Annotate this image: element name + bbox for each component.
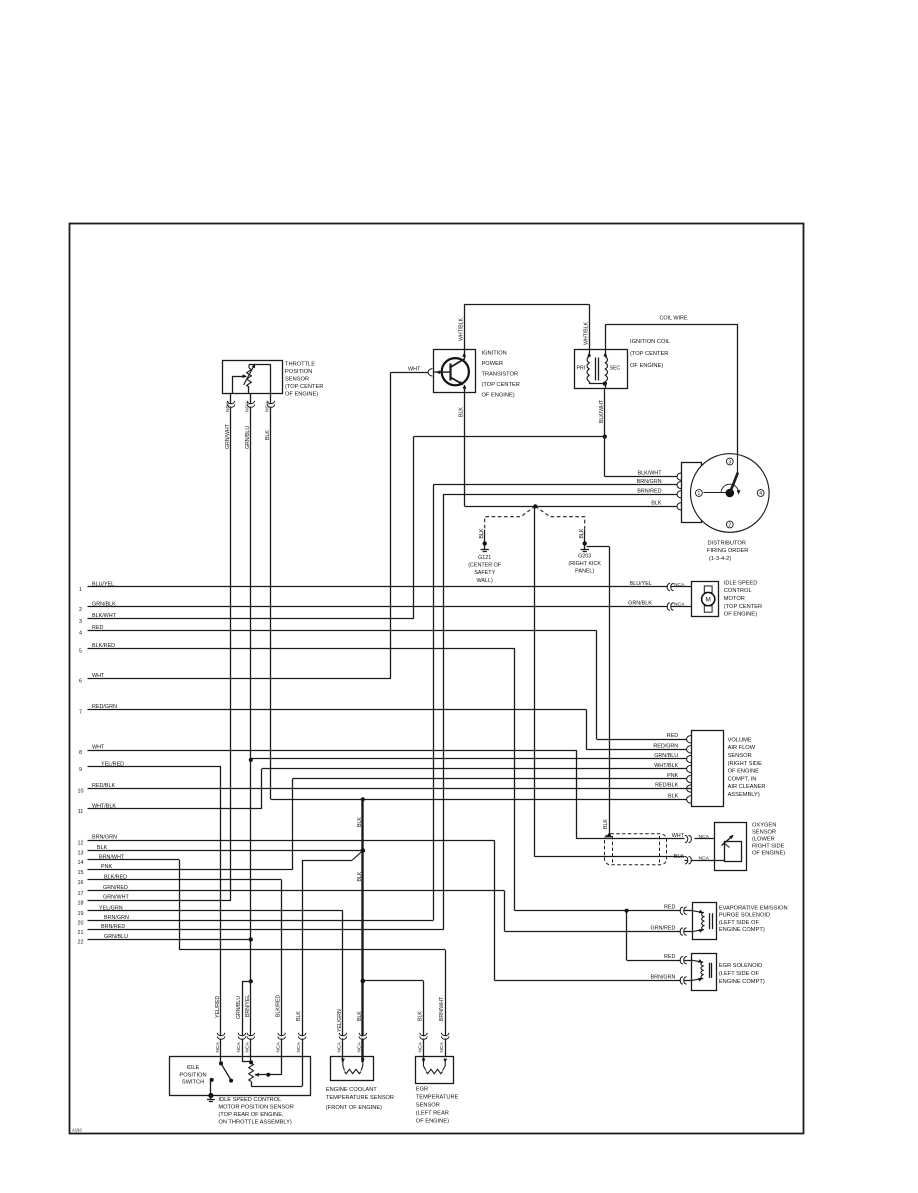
svg-text:NCA: NCA (245, 1041, 251, 1052)
svg-text:4: 4 (759, 491, 762, 497)
svg-text:BRN/WHT: BRN/WHT (439, 996, 445, 1021)
svg-text:WHT/BLK: WHT/BLK (654, 763, 678, 769)
svg-text:PRI: PRI (577, 366, 586, 372)
svg-text:BRN/RED: BRN/RED (637, 488, 661, 494)
svg-text:(TOP CENTER: (TOP CENTER (630, 351, 668, 357)
svg-text:POSITION: POSITION (285, 369, 312, 375)
svg-text:(TOP CENTER: (TOP CENTER (285, 384, 323, 390)
svg-text:NCA: NCA (439, 1041, 445, 1052)
svg-text:VOLUME: VOLUME (728, 737, 752, 743)
svg-text:BLK: BLK (296, 1011, 302, 1021)
svg-text:3: 3 (79, 619, 82, 625)
svg-text:WHT/BLK: WHT/BLK (92, 803, 116, 809)
svg-text:ENGINE COMPT): ENGINE COMPT) (719, 979, 765, 985)
svg-text:NCA: NCA (265, 401, 271, 412)
svg-text:12: 12 (78, 841, 84, 847)
svg-text:14: 14 (78, 860, 84, 866)
svg-text:(1-3-4-2): (1-3-4-2) (709, 556, 731, 562)
svg-text:(RIGHT KICK: (RIGHT KICK (568, 561, 601, 567)
svg-text:IDLE SPEED CONTROL: IDLE SPEED CONTROL (218, 1097, 281, 1103)
svg-text:NCA: NCA (357, 1041, 363, 1052)
svg-text:G203: G203 (578, 554, 591, 560)
svg-text:11: 11 (78, 809, 84, 815)
svg-text:WHT: WHT (92, 744, 105, 750)
svg-text:BLK/WHT: BLK/WHT (638, 471, 663, 477)
svg-text:BLK/WHT: BLK/WHT (92, 613, 117, 619)
svg-text:IDLE SPEED: IDLE SPEED (724, 580, 758, 586)
svg-text:BLK: BLK (603, 819, 609, 829)
svg-text:BRN/YEL: BRN/YEL (245, 995, 251, 1017)
svg-text:(CENTER OF: (CENTER OF (468, 563, 502, 569)
svg-text:(RIGHT SIDE: (RIGHT SIDE (728, 761, 763, 767)
svg-text:WHT/BLK: WHT/BLK (583, 321, 589, 345)
svg-text:1: 1 (698, 491, 701, 497)
svg-text:G121: G121 (478, 555, 491, 561)
svg-text:10: 10 (78, 789, 84, 795)
svg-text:(TOP CENTER: (TOP CENTER (482, 382, 520, 388)
svg-text:BLK: BLK (668, 793, 679, 799)
svg-text:NCA: NCA (275, 1041, 281, 1052)
svg-text:GRN/RED: GRN/RED (103, 885, 128, 891)
svg-text:YEL/GRN: YEL/GRN (337, 1009, 343, 1032)
svg-text:19: 19 (78, 911, 84, 917)
svg-text:SENSOR: SENSOR (752, 830, 776, 836)
svg-text:22: 22 (78, 940, 84, 946)
svg-text:OF ENGINE): OF ENGINE) (724, 612, 757, 618)
svg-text:17: 17 (78, 891, 84, 897)
svg-text:(LEFT REAR: (LEFT REAR (416, 1110, 449, 1116)
svg-text:BLK: BLK (579, 528, 585, 538)
svg-text:NCA: NCA (699, 834, 710, 840)
svg-text:BLK/RED: BLK/RED (104, 874, 127, 880)
svg-text:ON THROTTLE ASSEMBLY): ON THROTTLE ASSEMBLY) (218, 1119, 292, 1125)
svg-text:9: 9 (79, 767, 82, 773)
svg-text:GRN/BLU: GRN/BLU (245, 426, 251, 449)
svg-text:MOTOR: MOTOR (724, 596, 745, 602)
svg-text:NCA: NCA (417, 1041, 423, 1052)
svg-text:WHT: WHT (672, 833, 685, 839)
svg-text:WHT/BLK: WHT/BLK (458, 317, 464, 341)
svg-text:BLK: BLK (479, 528, 485, 538)
svg-text:RED: RED (664, 905, 675, 911)
svg-text:BRN/WHT: BRN/WHT (99, 854, 125, 860)
svg-text:4: 4 (79, 631, 82, 637)
svg-text:PANEL): PANEL) (575, 569, 594, 575)
svg-text:COMPT, IN: COMPT, IN (728, 776, 757, 782)
svg-text:(TOP CENTER: (TOP CENTER (724, 604, 762, 610)
svg-text:SAFETY: SAFETY (474, 570, 495, 576)
svg-text:NCA: NCA (236, 1041, 242, 1052)
svg-text:FIRING ORDER: FIRING ORDER (707, 548, 748, 554)
svg-text:(LOWER: (LOWER (752, 837, 775, 843)
svg-text:SENSOR: SENSOR (285, 377, 309, 383)
svg-text:BLU/YEL: BLU/YEL (630, 581, 652, 587)
svg-text:YEL/RED: YEL/RED (215, 996, 221, 1018)
svg-text:OXYGEN: OXYGEN (752, 823, 776, 829)
svg-text:NCA: NCA (225, 401, 231, 412)
svg-text:6: 6 (79, 679, 82, 685)
svg-text:OF ENGINE): OF ENGINE) (482, 392, 515, 398)
svg-text:(LEFT SIDE OF: (LEFT SIDE OF (719, 920, 760, 926)
svg-text:BLK: BLK (357, 1011, 363, 1021)
svg-text:BRN/GRN: BRN/GRN (637, 479, 662, 485)
svg-text:EGR SOLENOID: EGR SOLENOID (719, 963, 762, 969)
svg-text:BRN/GRN: BRN/GRN (92, 835, 117, 841)
svg-text:2: 2 (728, 523, 731, 529)
svg-text:15: 15 (78, 870, 84, 876)
svg-text:21: 21 (78, 930, 84, 936)
svg-text:BLK: BLK (357, 871, 363, 881)
svg-text:EGR: EGR (416, 1086, 428, 1092)
svg-text:BRN/RED: BRN/RED (101, 924, 125, 930)
svg-text:RED/GRN: RED/GRN (92, 704, 117, 710)
svg-text:BLK/RED: BLK/RED (92, 643, 115, 649)
svg-text:16: 16 (78, 880, 84, 886)
svg-text:OF ENGINE): OF ENGINE) (752, 851, 785, 857)
svg-text:ENGINE COOLANT: ENGINE COOLANT (326, 1087, 377, 1093)
svg-text:BLK: BLK (674, 854, 685, 860)
svg-text:THROTTLE: THROTTLE (285, 362, 315, 368)
svg-text:MOTOR POSITION SENSOR: MOTOR POSITION SENSOR (218, 1105, 293, 1111)
svg-text:BLK: BLK (651, 500, 662, 506)
svg-text:GRN/BLU: GRN/BLU (104, 934, 128, 940)
svg-text:YEL/RED: YEL/RED (101, 761, 124, 767)
svg-text:3: 3 (728, 460, 731, 466)
svg-text:RED: RED (664, 954, 675, 960)
svg-text:SENSOR: SENSOR (416, 1102, 440, 1108)
svg-text:AIR CLEANER: AIR CLEANER (728, 784, 766, 790)
svg-text:NCA: NCA (215, 1041, 221, 1052)
svg-text:COIL WIRE: COIL WIRE (660, 316, 688, 322)
svg-text:BLU/YEL: BLU/YEL (92, 581, 114, 587)
svg-text:IGNITION COIL: IGNITION COIL (630, 339, 670, 345)
svg-text:GRN/BLU: GRN/BLU (236, 996, 242, 1019)
svg-text:IGNITION: IGNITION (482, 350, 507, 356)
svg-text:PURGE SOLENOID: PURGE SOLENOID (719, 913, 770, 919)
svg-text:OF ENGINE: OF ENGINE (728, 769, 759, 775)
svg-text:NCA: NCA (674, 602, 685, 608)
svg-text:BLK: BLK (265, 430, 271, 440)
svg-text:TRANSISTOR: TRANSISTOR (482, 371, 519, 377)
svg-text:BLK: BLK (418, 1011, 424, 1021)
svg-text:ENGINE COMPT): ENGINE COMPT) (719, 927, 765, 933)
svg-text:RIGHT SIDE: RIGHT SIDE (752, 844, 785, 850)
svg-text:TEMPERATURE: TEMPERATURE (416, 1094, 459, 1100)
svg-text:13: 13 (78, 851, 84, 857)
svg-text:PNK: PNK (667, 773, 678, 779)
svg-text:1: 1 (79, 587, 82, 593)
svg-text:BLK/WHT: BLK/WHT (599, 399, 605, 423)
svg-text:GRN/BLK: GRN/BLK (92, 601, 116, 607)
svg-text:BLK: BLK (97, 845, 108, 851)
svg-text:NCA: NCA (296, 1041, 302, 1052)
svg-text:A19J: A19J (72, 1128, 82, 1133)
svg-text:BRN/GRN: BRN/GRN (104, 915, 129, 921)
svg-text:TEMPERATURE SENSOR: TEMPERATURE SENSOR (326, 1095, 394, 1101)
svg-text:SWITCH: SWITCH (182, 1080, 204, 1086)
svg-text:SENSOR: SENSOR (728, 753, 752, 759)
svg-text:BLK/RED: BLK/RED (276, 995, 282, 1017)
svg-text:POWER: POWER (482, 361, 504, 367)
svg-text:BLK: BLK (357, 817, 363, 827)
svg-text:OF ENGINE): OF ENGINE) (416, 1118, 449, 1124)
svg-text:EVAPORATIVE EMISSION: EVAPORATIVE EMISSION (719, 905, 788, 911)
svg-text:OF ENGINE): OF ENGINE) (630, 363, 663, 369)
svg-text:GRN/BLU: GRN/BLU (654, 753, 678, 759)
svg-text:SEC: SEC (610, 366, 621, 372)
svg-text:(FRONT OF ENGINE): (FRONT OF ENGINE) (326, 1105, 382, 1111)
svg-text:8: 8 (79, 750, 82, 756)
svg-text:GRN/WHT: GRN/WHT (103, 895, 129, 901)
svg-text:WALL): WALL) (477, 578, 493, 584)
svg-text:NCA: NCA (337, 1041, 343, 1052)
svg-text:GRN/WHT: GRN/WHT (225, 423, 231, 449)
svg-text:WHT: WHT (92, 673, 105, 679)
svg-text:(LEFT SIDE OF: (LEFT SIDE OF (719, 971, 760, 977)
svg-text:IDLE: IDLE (187, 1065, 200, 1071)
svg-text:AIR FLOW: AIR FLOW (728, 745, 756, 751)
svg-text:RED/BLK: RED/BLK (92, 783, 115, 789)
svg-text:5: 5 (79, 649, 82, 655)
svg-text:RED: RED (667, 733, 678, 739)
svg-text:RED: RED (92, 625, 103, 631)
svg-text:CONTROL: CONTROL (724, 588, 752, 594)
svg-text:RED/GRN: RED/GRN (653, 743, 678, 749)
svg-text:BRN/GRN: BRN/GRN (651, 974, 676, 980)
svg-text:2: 2 (79, 607, 82, 613)
svg-text:NCA: NCA (245, 401, 251, 412)
svg-text:7: 7 (79, 710, 82, 716)
svg-text:RED/BLK: RED/BLK (655, 783, 678, 789)
svg-text:BLK: BLK (459, 407, 465, 417)
svg-text:NCA: NCA (674, 582, 685, 588)
svg-text:20: 20 (78, 921, 84, 927)
svg-text:GRN/BLK: GRN/BLK (628, 600, 652, 606)
svg-text:GRN/RED: GRN/RED (651, 926, 676, 932)
svg-text:PNK: PNK (101, 864, 112, 870)
svg-text:(TOP REAR OF ENGINE,: (TOP REAR OF ENGINE, (218, 1112, 284, 1118)
svg-text:WHT: WHT (408, 366, 421, 372)
svg-text:18: 18 (78, 901, 84, 907)
svg-text:M: M (706, 597, 711, 604)
svg-text:DISTRIBUTOR: DISTRIBUTOR (708, 541, 746, 547)
svg-text:OF ENGINE): OF ENGINE) (285, 392, 318, 398)
svg-text:ASSEMBLY): ASSEMBLY) (728, 792, 760, 798)
svg-text:POSITION: POSITION (179, 1072, 206, 1078)
svg-text:NCA: NCA (699, 855, 710, 861)
svg-text:YEL/GRN: YEL/GRN (99, 905, 123, 911)
